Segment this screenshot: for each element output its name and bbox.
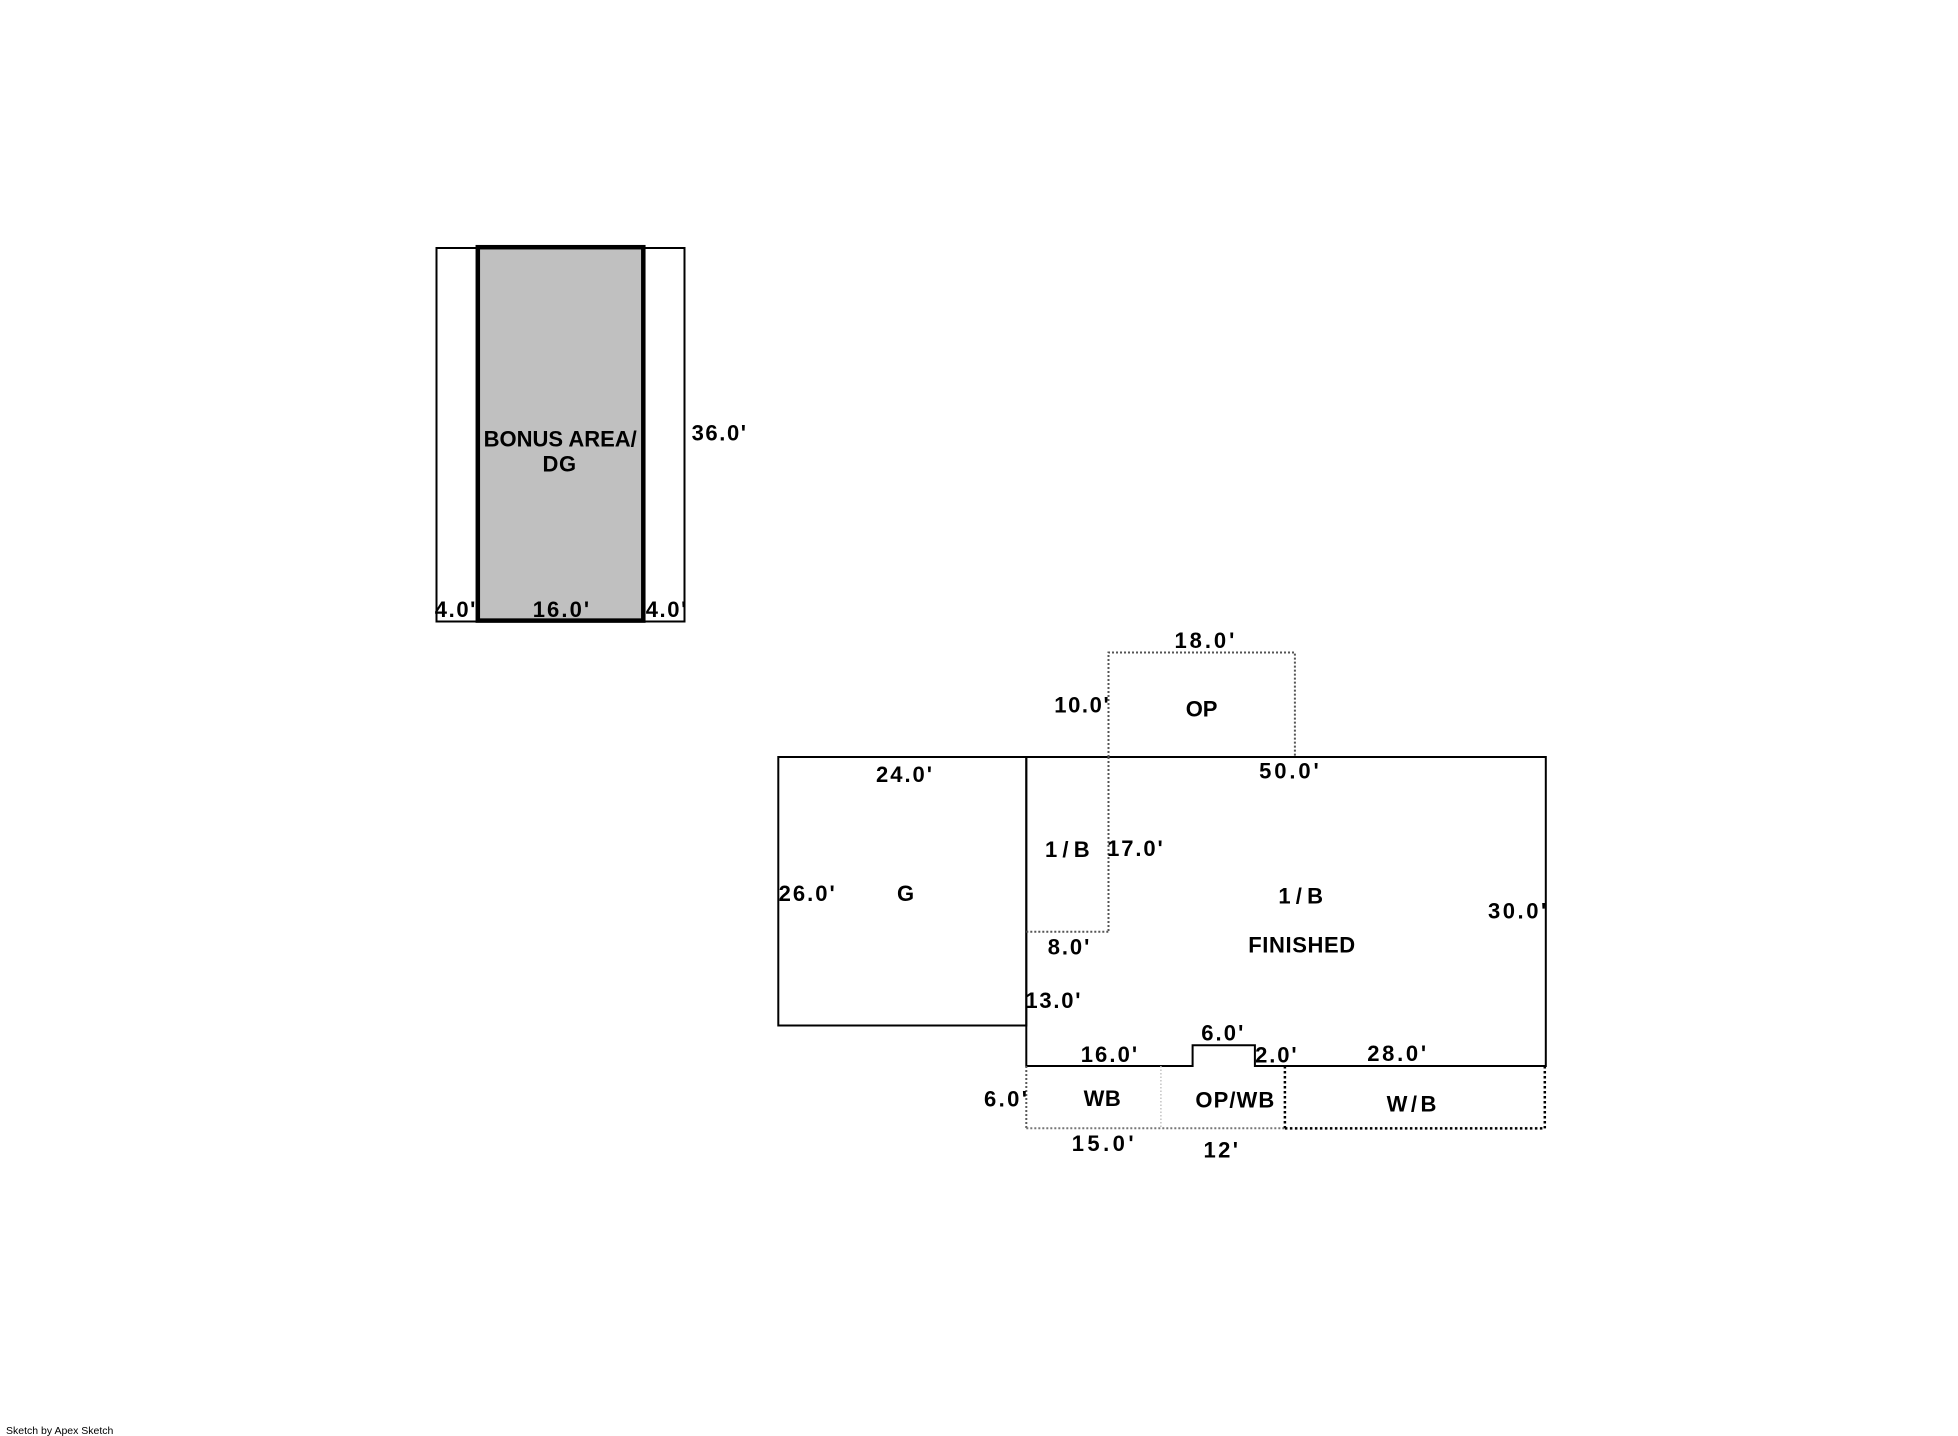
- bonus area outer rectangle: [437, 248, 685, 622]
- OPWB right dotted divider: [1284, 1066, 1287, 1128]
- garage rectangle: [778, 757, 1026, 1026]
- interior dotted line 8.0': [1026, 931, 1108, 933]
- interior dotted line 17.0': [1108, 757, 1110, 932]
- svg-text:18.0': 18.0': [1174, 628, 1237, 653]
- svg-text:1/B: 1/B: [1278, 884, 1328, 909]
- svg-text:16.0': 16.0': [1081, 1042, 1140, 1067]
- svg-text:OP: OP: [1186, 697, 1218, 722]
- svg-text:Sketch by Apex Sketch: Sketch by Apex Sketch: [6, 1425, 114, 1436]
- svg-text:10.0': 10.0': [1054, 692, 1110, 717]
- svg-text:30.0': 30.0': [1488, 899, 1549, 924]
- svg-text:36.0': 36.0': [692, 420, 748, 445]
- svg-text:15.0': 15.0': [1072, 1131, 1137, 1156]
- house outline with bump: [1026, 757, 1546, 1066]
- svg-text:WB: WB: [1084, 1086, 1122, 1111]
- WB/OPWB bottom dotted edge: [1026, 1127, 1285, 1129]
- svg-text:DG: DG: [542, 452, 576, 477]
- WB bottom dotted black: [1285, 1127, 1545, 1130]
- svg-text:26.0': 26.0': [779, 881, 837, 906]
- svg-text:50.0': 50.0': [1259, 758, 1322, 783]
- WB OPWB faint divider: [1160, 1066, 1162, 1128]
- svg-text:12': 12': [1203, 1137, 1240, 1162]
- svg-text:28.0': 28.0': [1367, 1041, 1429, 1066]
- svg-text:OP/WB: OP/WB: [1195, 1088, 1275, 1113]
- WB left dotted edge: [1025, 1066, 1027, 1128]
- bonus area gray room rectangle: [478, 247, 644, 620]
- svg-text:4.0': 4.0': [646, 597, 688, 622]
- svg-text:24.0': 24.0': [876, 762, 934, 787]
- svg-text:13.0': 13.0': [1025, 988, 1082, 1013]
- svg-text:8.0': 8.0': [1048, 934, 1091, 959]
- OP porch dotted rectangle: [1109, 653, 1295, 758]
- svg-text:2.0': 2.0': [1255, 1042, 1298, 1067]
- svg-text:G: G: [897, 881, 915, 906]
- svg-text:17.0': 17.0': [1107, 836, 1165, 861]
- WB right dotted edge: [1544, 1066, 1547, 1128]
- svg-text:BONUS AREA/: BONUS AREA/: [484, 426, 637, 451]
- svg-text:16.0': 16.0': [533, 597, 592, 622]
- svg-text:6.0': 6.0': [1201, 1021, 1245, 1046]
- svg-text:W/B: W/B: [1387, 1092, 1440, 1117]
- svg-text:4.0': 4.0': [435, 597, 477, 622]
- svg-text:1/B: 1/B: [1045, 837, 1095, 862]
- svg-text:FINISHED: FINISHED: [1248, 933, 1355, 958]
- svg-text:6.0': 6.0': [984, 1086, 1029, 1111]
